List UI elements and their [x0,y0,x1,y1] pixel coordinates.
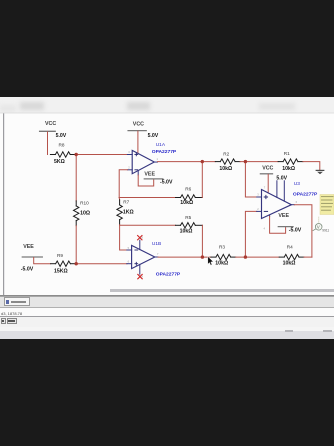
svg-text:9911: 9911 [322,229,329,233]
resistor R1 [278,151,303,172]
bottom UI chrome [110,289,334,292]
pin-x marker (U1B V+) [138,236,142,240]
power VCC symbol (left) [40,131,56,154]
svg-text:VCC: VCC [262,165,273,171]
wire column to R7 [118,198,120,200]
wire U1A - input to feedback column [119,170,127,198]
junction at R2/R1 node [244,160,247,163]
U3 extra V+ pin stubs [277,181,284,201]
wire R3 to R4 [236,256,280,258]
svg-text:VCC: VCC [133,122,144,128]
resistor R9 [51,253,76,275]
svg-text:-5.0V: -5.0V [160,180,173,186]
svg-text:VEE: VEE [23,244,34,250]
pin numbers U3 [257,186,297,231]
resistor R4 [279,244,304,266]
junction at R8/R10 node [75,153,78,156]
wire R7 to U1B - input [120,225,127,250]
svg-text:10kΩ: 10kΩ [180,229,193,235]
svg-text:R8: R8 [59,143,65,148]
pin numbers U1B [128,236,159,279]
svg-text:10kΩ: 10kΩ [215,261,228,267]
svg-text:VEE: VEE [144,172,155,178]
svg-text:R3: R3 [219,244,225,249]
wire R5 down to U1B output row [201,225,203,257]
pin numbers U1A [128,150,158,169]
junction at U1A output / R6 [201,160,204,163]
junction at U1B output / R5 [201,255,204,258]
wire U1B output row [158,256,211,258]
svg-text:R4: R4 [287,244,293,249]
svg-text:5KΩ: 5KΩ [54,159,65,165]
op-amp U1A [127,150,157,173]
svg-text:10kΩ: 10kΩ [219,166,232,172]
svg-text:R2: R2 [223,151,229,156]
svg-text:R1: R1 [284,151,290,156]
power VEE symbol (below U3) [270,215,293,233]
wire R6 up to output row [201,162,203,198]
resistor R5 [176,215,203,235]
annotation note (yellow) [320,195,334,215]
resistor R3 [211,244,236,266]
wire R4 to U3 output feedback [304,256,312,258]
toolbar band (blurred) [0,97,334,113]
wire R1 to ground [303,162,320,170]
svg-text:VEE: VEE [278,213,289,219]
svg-text:15KΩ: 15KΩ [54,269,68,275]
svg-text:1KΩ: 1KΩ [123,209,134,215]
wire R8 junction to U1A + input [76,154,127,156]
mouse cursor [208,257,213,266]
junction at R9/R10 node [75,262,78,265]
resistor R6 [176,187,203,206]
canvas background [0,113,334,296]
power VCC symbol (above U3) [260,174,272,193]
resistor R8 [50,143,75,165]
svg-text:10kΩ: 10kΩ [283,261,296,267]
wire R5 row tee [120,224,176,226]
top letterbox bar [0,0,334,97]
wire U1A output row [158,161,216,163]
op-amp U3 [257,190,295,219]
svg-text:OPA2277P: OPA2277P [293,192,318,198]
wire junction down to R10 [75,155,77,201]
power VCC symbol (above U1A) [128,131,146,153]
svg-text:10kΩ: 10kΩ [282,166,295,172]
bottom letterbox bar [0,339,334,446]
svg-text:R7: R7 [123,199,129,204]
wire U3 output down to R4 [294,205,312,257]
probe PR1 [313,217,329,233]
junction at R3/R4 node [244,255,247,258]
resistor R2 [215,151,240,172]
pin-x marker (U1B V-) [138,274,142,278]
svg-text:5.0V: 5.0V [148,133,159,139]
svg-text:5.0V: 5.0V [276,176,287,182]
svg-text:R6: R6 [185,187,191,192]
svg-text:U3: U3 [294,181,300,187]
svg-text:10kΩ: 10kΩ [180,200,193,206]
wire node up to U3 - input [245,211,256,257]
ground [316,170,324,174]
wire feedback tee to R6 [119,197,175,199]
power VEE symbol (left) [22,257,50,264]
resistor R7 [117,199,134,224]
svg-text:OPA2277P: OPA2277P [152,149,177,155]
wire R10 to bottom row [75,226,77,264]
svg-text:10Ω: 10Ω [80,210,90,216]
wire R9 junction to U1B + input [76,263,127,265]
canvas left border [3,113,5,295]
svg-text:V: V [317,225,320,230]
resistor R10 [74,200,91,225]
svg-text:R10: R10 [80,200,89,205]
op-amp U1B [127,240,158,274]
power VEE symbol (below U1A) [138,171,163,186]
svg-text:U1A: U1A [156,142,166,148]
svg-text:-5.0V: -5.0V [289,227,302,233]
wire R2 to R1 [240,161,278,163]
svg-text:R9: R9 [57,253,63,258]
svg-text:U1B: U1B [152,241,161,247]
svg-text:VCC: VCC [45,121,56,127]
svg-text:R5: R5 [185,215,191,220]
svg-text:-5.0V: -5.0V [21,266,34,272]
svg-text:5.0V: 5.0V [56,133,67,139]
wire node down to U3 + input [245,162,256,197]
svg-text:OPA2277P: OPA2277P [156,272,181,278]
